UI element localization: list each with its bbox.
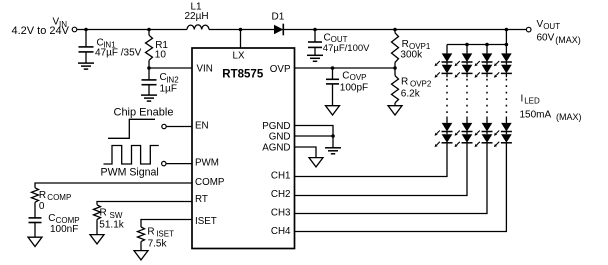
wire ISET pin xyxy=(141,220,192,228)
wire LED anode bus xyxy=(447,44,506,46)
wire LED string 3 seg2 xyxy=(486,132,488,135)
wire RT pin xyxy=(97,202,192,205)
ground (AGND, arrow) xyxy=(309,158,323,167)
wire CH4 return xyxy=(295,143,507,232)
svg-text:PGND: PGND xyxy=(262,121,290,132)
label CIN2 value xyxy=(160,72,180,94)
label ILED / 150mA(MAX) xyxy=(520,94,582,122)
capacitor COUT xyxy=(308,30,322,55)
junction LX tap xyxy=(239,28,243,32)
wire CH1 return xyxy=(295,143,448,177)
pwm square waveform xyxy=(104,146,159,165)
svg-text:0: 0 xyxy=(39,201,45,212)
capacitor CIN1 xyxy=(79,30,94,63)
svg-text:EN: EN xyxy=(195,120,209,131)
label Chip Enable xyxy=(114,107,174,119)
svg-text:100pF: 100pF xyxy=(340,82,368,93)
pin label COMP xyxy=(195,177,225,188)
pin label ISET xyxy=(195,216,217,227)
ground (CIN1, earth) xyxy=(78,63,94,69)
wire LX pin xyxy=(240,30,242,49)
svg-text:CH4: CH4 xyxy=(271,226,291,237)
wire LED string 4 seg2 xyxy=(505,132,507,135)
svg-text:RT: RT xyxy=(195,194,208,205)
svg-text:R: R xyxy=(39,190,46,201)
LED D2c xyxy=(455,123,473,136)
label VOUT / 60V(MAX) xyxy=(537,19,581,45)
wire RISET to ground xyxy=(140,242,142,251)
label ROVP1 value xyxy=(400,39,430,61)
pin label AGND xyxy=(262,142,290,153)
LED D3d xyxy=(475,134,493,147)
wire CH3 return xyxy=(295,143,488,214)
ground (ROVP2, arrow) xyxy=(388,106,402,115)
node PWM drive terminal xyxy=(162,161,166,165)
svg-text:R: R xyxy=(401,77,408,88)
resistor RSW xyxy=(94,205,101,220)
op-amp U1 RT8575 IC body xyxy=(192,48,295,249)
pin label LX xyxy=(233,51,245,62)
LED D1a xyxy=(435,53,453,66)
svg-text:R: R xyxy=(100,208,107,219)
wire LED string 1 dotted continuation xyxy=(446,73,448,123)
svg-text:51.1k: 51.1k xyxy=(99,220,124,231)
inductor L1 xyxy=(187,25,209,30)
LED D4b xyxy=(494,65,512,78)
svg-text:RT8575: RT8575 xyxy=(222,69,264,81)
svg-text:OVP: OVP xyxy=(270,64,291,75)
junction LED bus col4 xyxy=(505,43,509,47)
wire LED string 3 top xyxy=(486,45,488,54)
LED D1b xyxy=(435,65,453,78)
wire COMP pin xyxy=(35,183,192,188)
ground (CCOMP, arrow) xyxy=(28,237,42,246)
wire PGND pin xyxy=(295,126,334,137)
svg-text:7.5k: 7.5k xyxy=(148,239,168,250)
pin label VIN xyxy=(197,63,213,74)
svg-text:OVP2: OVP2 xyxy=(410,80,432,89)
junction R1/CIN2/VIN-pin xyxy=(147,66,151,70)
LED D3a xyxy=(475,53,493,66)
svg-text:I: I xyxy=(521,94,524,105)
wire PWM pin xyxy=(166,163,192,165)
pin label PWM xyxy=(195,158,219,169)
wire LED string 2 top xyxy=(466,45,468,54)
ground (CIN2, earth) xyxy=(141,95,157,101)
label RT8575 xyxy=(222,69,264,81)
LED D2a xyxy=(455,53,473,66)
svg-text:D1: D1 xyxy=(272,11,285,22)
wire LED string 4 dotted continuation xyxy=(505,73,507,123)
label L1 value xyxy=(185,2,209,22)
pin label CH1 xyxy=(271,170,291,181)
wire LED string 2 dotted continuation xyxy=(466,73,468,123)
wire LED string 1 seg2 xyxy=(446,132,448,135)
ground (COUT, earth) xyxy=(307,55,323,61)
svg-text:OVP: OVP xyxy=(350,73,367,82)
svg-text:4.2V to 24V: 4.2V to 24V xyxy=(12,25,70,37)
svg-text:PWM Signal: PWM Signal xyxy=(101,167,159,179)
junction COUT tap xyxy=(313,28,317,32)
junction CIN1 tap xyxy=(84,28,88,32)
label COVP value xyxy=(340,71,368,94)
svg-text:CH2: CH2 xyxy=(271,189,291,200)
pin label OVP xyxy=(270,64,291,75)
label RCOMP value xyxy=(39,190,71,212)
LED D4c xyxy=(494,123,512,136)
svg-text:AGND: AGND xyxy=(262,142,290,153)
resistor R1 xyxy=(146,30,153,68)
chip-enable step waveform xyxy=(108,119,155,138)
label D1 xyxy=(272,11,285,22)
pin label CH2 xyxy=(271,189,291,200)
svg-text:CH3: CH3 xyxy=(271,208,291,219)
wire GND down xyxy=(332,136,334,148)
junction COVP tap xyxy=(331,66,335,70)
wire RSW to ground xyxy=(96,219,98,234)
node EN drive terminal xyxy=(162,124,166,128)
wire LED string 3 dotted continuation xyxy=(486,73,488,123)
wire LED string 3 seg xyxy=(486,62,488,65)
svg-text:R: R xyxy=(147,226,154,237)
node VIN input terminal xyxy=(72,27,77,32)
resistor ROVP1 xyxy=(392,30,399,68)
pin label CH3 xyxy=(271,208,291,219)
LED D2d xyxy=(455,134,473,147)
wire top rail: D1 to VOUT terminal xyxy=(283,29,526,31)
svg-text:10: 10 xyxy=(155,49,167,60)
svg-text:VIN: VIN xyxy=(197,63,213,74)
label RISET value xyxy=(147,226,174,249)
svg-text:1µF: 1µF xyxy=(160,84,177,95)
label VIN / 4.2V to 24V xyxy=(12,17,70,38)
svg-text:COMP: COMP xyxy=(195,177,225,188)
wire RCOMP to CCOMP xyxy=(34,202,36,218)
wire LED string 4 top xyxy=(505,45,507,54)
ground (COVP, arrow) xyxy=(326,106,340,115)
svg-text:47µF /35V: 47µF /35V xyxy=(95,48,142,59)
svg-text:47µF/100V: 47µF/100V xyxy=(323,43,370,54)
label CCOMP value xyxy=(48,213,79,235)
pin label RT xyxy=(195,194,208,205)
capacitor CIN2 xyxy=(142,68,157,95)
wire LED string 2 seg2 xyxy=(466,132,468,135)
svg-text:PWM: PWM xyxy=(195,158,219,169)
svg-text:C: C xyxy=(48,213,55,224)
junction LED bus col2 xyxy=(465,43,469,47)
wire LED anode bus riser xyxy=(505,30,507,45)
wire CH2 return xyxy=(295,143,468,196)
junction PGND/GND xyxy=(331,134,335,138)
wire LED string 1 seg xyxy=(446,62,448,65)
pin label CH4 xyxy=(271,226,291,237)
wire top rail: VIN terminal to L1 xyxy=(77,29,187,31)
svg-text:(MAX): (MAX) xyxy=(556,112,582,122)
wire LED string 1 top xyxy=(446,45,448,54)
capacitor CCOMP xyxy=(29,218,42,237)
ground (RISET, arrow) xyxy=(134,251,148,260)
pin label EN xyxy=(195,120,209,131)
LED D4a xyxy=(494,53,512,66)
svg-text:COMP: COMP xyxy=(47,193,71,202)
resistor RCOMP xyxy=(32,188,39,202)
wire AGND pin xyxy=(295,147,317,158)
wire top rail: L1 to D1 xyxy=(209,29,274,31)
label R1 value xyxy=(155,40,169,61)
svg-text:LX: LX xyxy=(233,51,245,62)
wire EN pin xyxy=(167,126,192,128)
ground (PGND/GND, earth) xyxy=(325,148,341,154)
svg-text:Chip Enable: Chip Enable xyxy=(114,107,174,119)
label ROVP2 value xyxy=(401,77,432,100)
svg-text:C: C xyxy=(342,71,349,82)
LED D3c xyxy=(475,123,493,136)
junction LED bus riser tap xyxy=(505,28,509,32)
LED D2b xyxy=(455,65,473,78)
junction ROVP1 tap xyxy=(393,28,397,32)
svg-text:ISET: ISET xyxy=(195,216,217,227)
svg-text:R: R xyxy=(402,39,409,50)
label RSW value xyxy=(99,208,124,231)
wire LED string 4 seg xyxy=(505,62,507,65)
resistor ROVP2 xyxy=(392,68,399,106)
LED D3b xyxy=(475,65,493,78)
label PWM Signal xyxy=(101,167,159,179)
label CIN1 value xyxy=(95,37,142,58)
svg-text:GND: GND xyxy=(269,131,291,142)
wire VIN pin xyxy=(149,67,192,69)
junction R1 tap xyxy=(147,28,151,32)
svg-text:6.2k: 6.2k xyxy=(401,89,421,100)
wire LED string 2 seg xyxy=(466,62,468,65)
wire GND pin xyxy=(295,135,334,137)
svg-text:CH1: CH1 xyxy=(271,170,291,181)
svg-text:60V: 60V xyxy=(537,33,555,44)
LED D1d xyxy=(435,134,453,147)
svg-text:OUT: OUT xyxy=(543,22,560,31)
wire OVP pin xyxy=(295,67,396,69)
node VOUT output terminal xyxy=(526,27,531,32)
junction ROVP1/ROVP2/OVP xyxy=(393,66,397,70)
svg-text:300k: 300k xyxy=(400,50,423,61)
LED D4d xyxy=(494,134,512,147)
junction LED bus col3 xyxy=(485,43,489,47)
svg-text:150mA: 150mA xyxy=(520,110,552,121)
resistor RISET xyxy=(138,227,145,242)
ground (RSW, arrow) xyxy=(90,235,104,244)
label COUT value xyxy=(323,32,370,54)
diode D1 xyxy=(274,24,283,36)
capacitor COVP xyxy=(326,68,339,106)
svg-text:22µH: 22µH xyxy=(185,11,209,22)
svg-text:100nF: 100nF xyxy=(50,224,78,235)
pin label PGND xyxy=(262,121,290,132)
svg-text:LED: LED xyxy=(524,97,540,106)
LED D1c xyxy=(435,123,453,136)
pin label GND xyxy=(269,131,291,142)
svg-text:ISET: ISET xyxy=(156,230,174,239)
svg-text:(MAX): (MAX) xyxy=(555,35,581,45)
